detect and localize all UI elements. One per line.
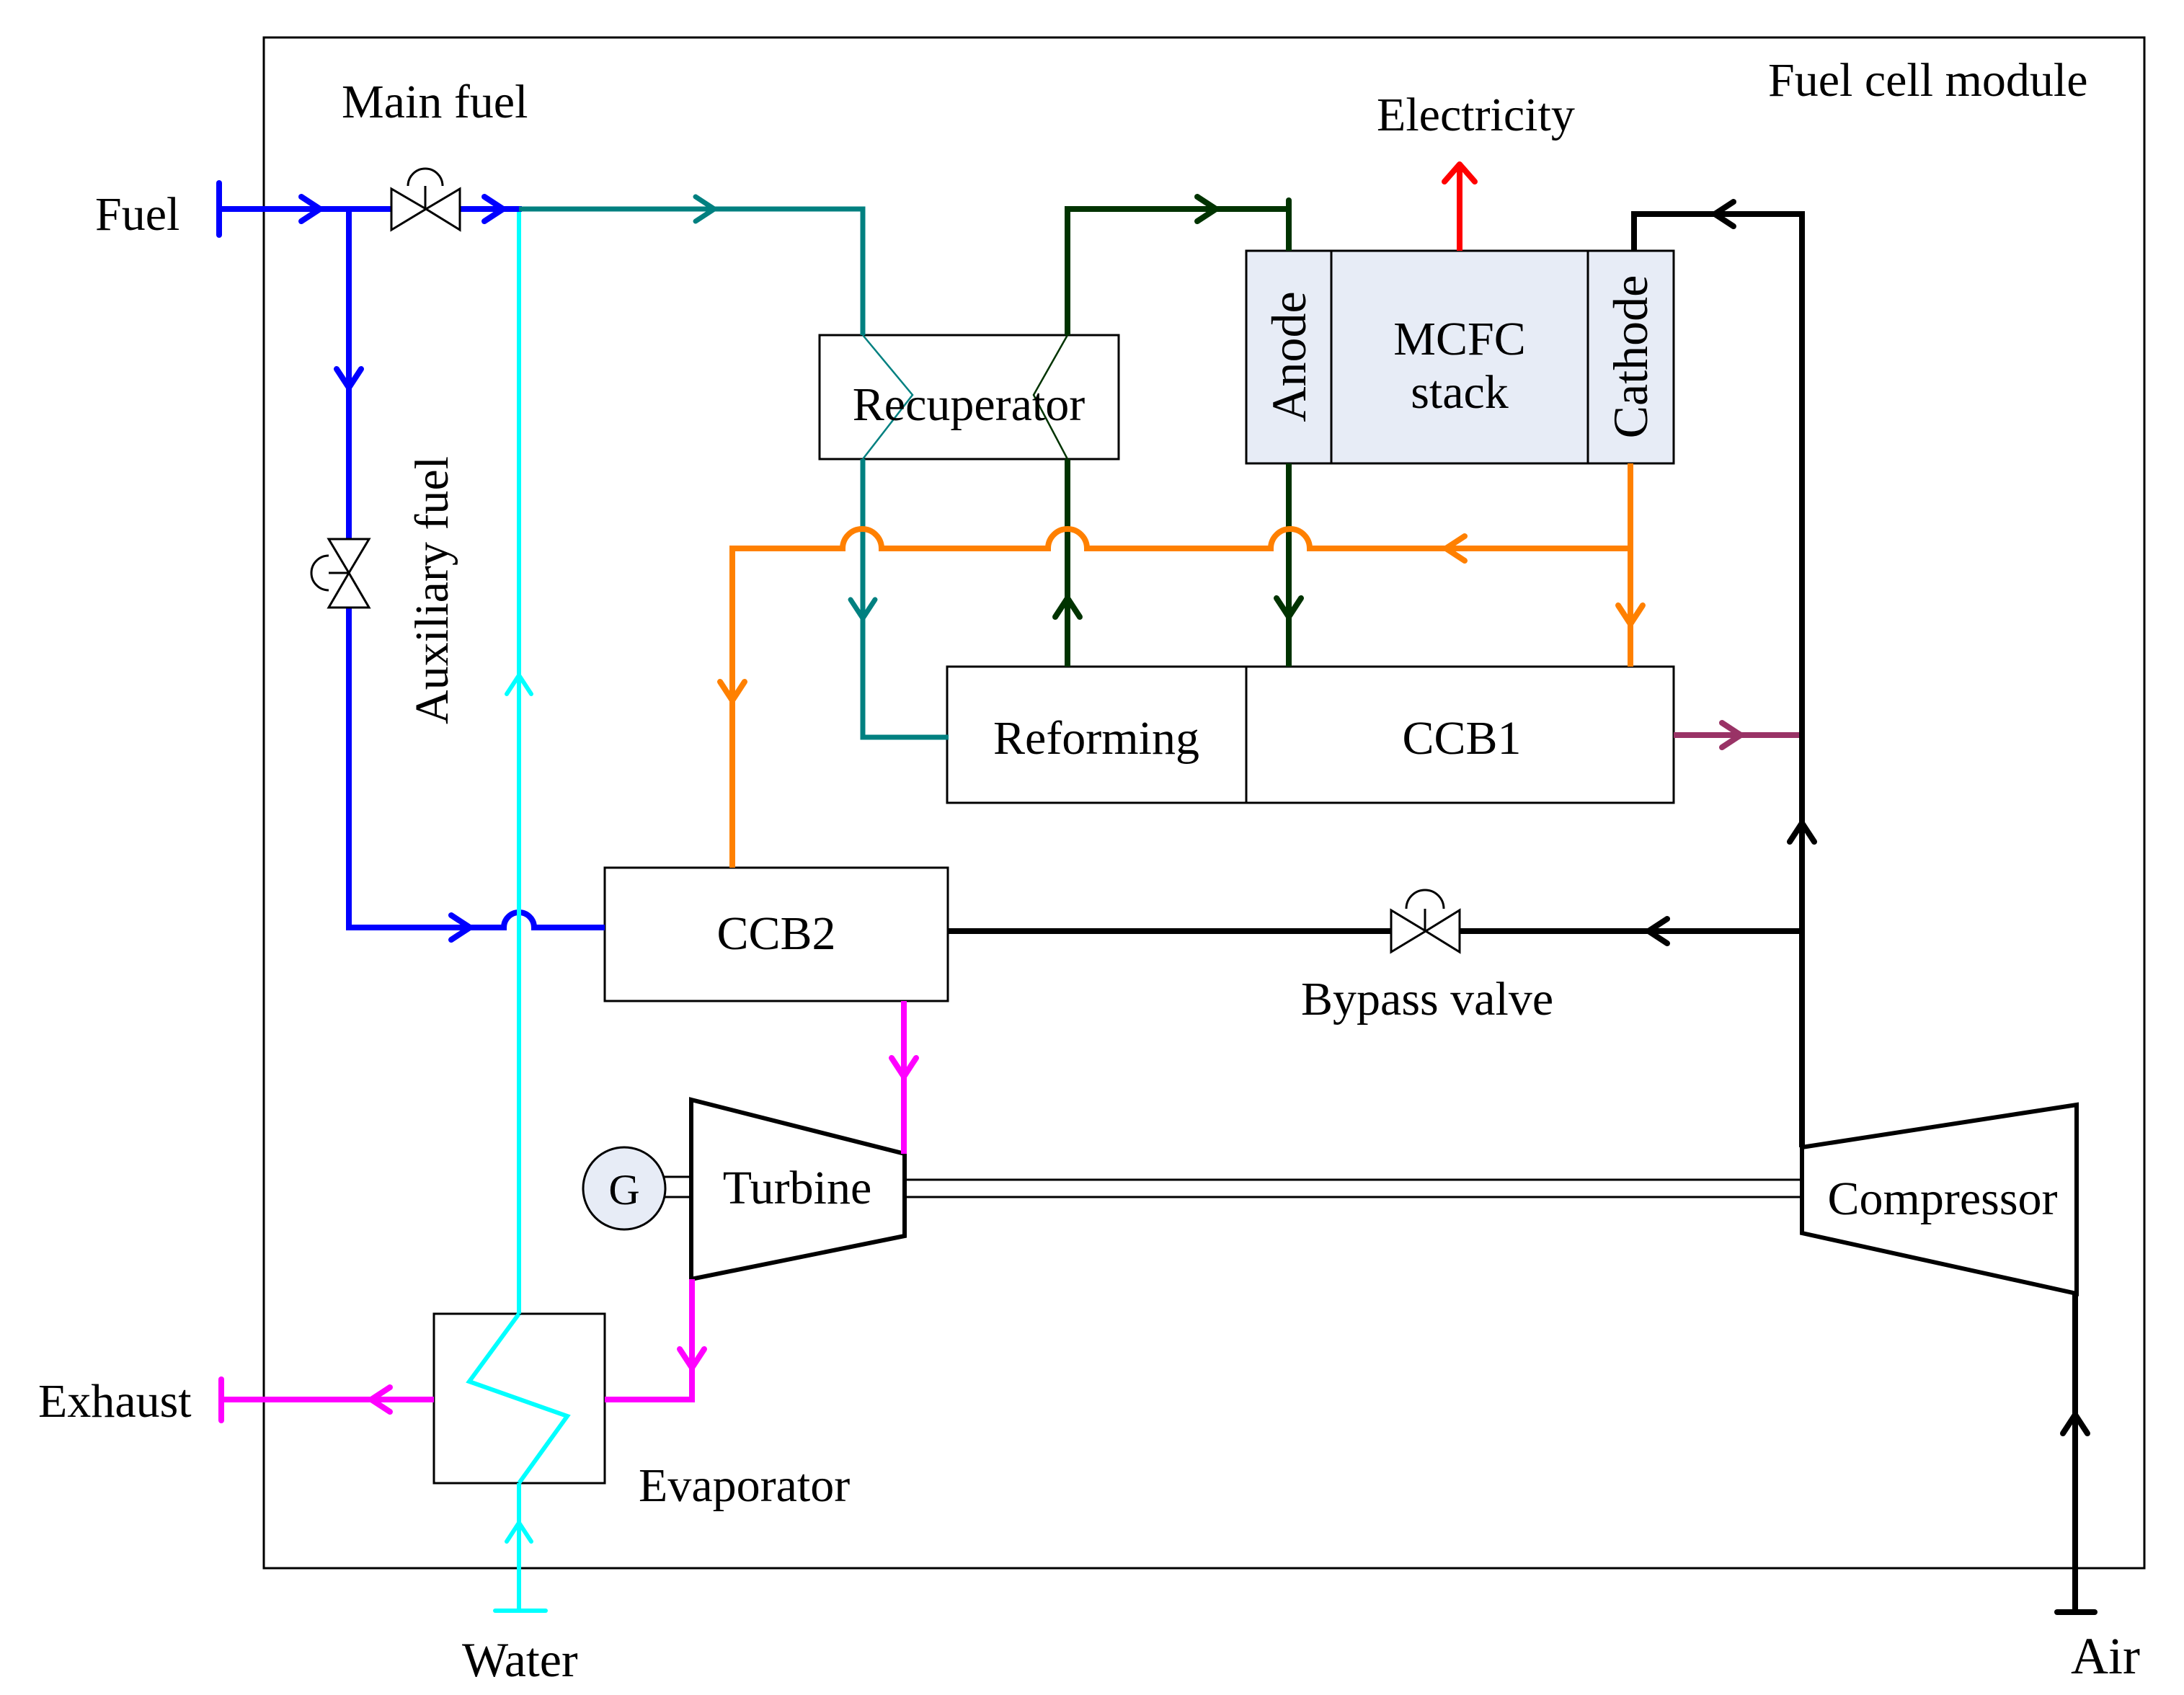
wire: turbine outlet to evaporator: [605, 1279, 692, 1400]
wire: cathode down: [1628, 463, 1633, 667]
wire: auxiliary to CCB2 with hump over water line: [349, 912, 605, 927]
arrow left to cathode: [1715, 202, 1734, 226]
wire: shaft G to turbine: [663, 1177, 693, 1197]
wire: recuperator to anode: [1067, 209, 1289, 335]
svg-text:G: G: [608, 1166, 639, 1214]
svg-text:Air: Air: [2071, 1627, 2140, 1685]
arrow after valve: [484, 197, 503, 221]
MCFC stack box: [1246, 251, 1674, 463]
arrow down to CCB1: [1277, 598, 1301, 617]
wire: water inlet below evaporator: [517, 1483, 521, 1611]
generator G: [583, 1147, 665, 1229]
svg-text:Fuel cell module: Fuel cell module: [1768, 54, 2088, 107]
main fuel valve: [391, 169, 460, 230]
arrow left to exhaust: [371, 1387, 390, 1412]
wire: bypass line CCB2 to riser: [948, 928, 1391, 934]
arrow up electricity: [1444, 164, 1475, 182]
arrow down from turbine: [680, 1349, 704, 1368]
CCB2 box: [605, 868, 948, 1001]
svg-text:Electricity: Electricity: [1377, 89, 1575, 141]
arrow toward recuperator: [696, 197, 714, 221]
wire: CCB1 to air line: [1674, 732, 1802, 738]
auxiliary fuel valve: [311, 539, 369, 608]
wire: compressor riser to cathode: [1634, 214, 1802, 1147]
svg-text:Reforming: Reforming: [993, 712, 1199, 765]
svg-text:Auxiliary fuel: Auxiliary fuel: [406, 456, 458, 724]
svg-text:CCB2: CCB2: [716, 907, 835, 960]
bypass valve: [1391, 890, 1460, 952]
svg-text:Water: Water: [462, 1632, 578, 1687]
wire: auxiliary branch down: [346, 209, 352, 539]
arrow up on riser: [1790, 823, 1814, 842]
arrow down to reforming: [851, 600, 875, 618]
wire: fuel junction to recuperator: [519, 209, 863, 335]
arrow toward anode: [1197, 197, 1216, 221]
svg-text:Evaporator: Evaporator: [639, 1459, 850, 1512]
wire: CCB2 to turbine: [901, 1001, 907, 1154]
svg-text:Fuel: Fuel: [95, 188, 179, 241]
arrow on auxiliary branch: [337, 369, 361, 388]
arrow left on header: [1446, 536, 1465, 561]
compressor: [1802, 1105, 2077, 1294]
evaporator box: [434, 1314, 605, 1483]
recuperator teal vee: [863, 335, 913, 459]
evaporator zigzag: [469, 1314, 567, 1483]
wire: orange header with humps: [732, 529, 1630, 868]
wire: air inlet: [2072, 1294, 2078, 1612]
recuperator green vee: [1034, 335, 1067, 459]
svg-text:Anode: Anode: [1261, 291, 1316, 422]
svg-text:MCFC: MCFC: [1393, 313, 1525, 365]
arrow on fuel inlet: [301, 197, 320, 221]
turbine: [691, 1100, 905, 1279]
arrow down to CCB1 right: [1618, 605, 1643, 624]
arrow down to CCB2: [720, 682, 745, 700]
cathode divider: [1587, 251, 1589, 463]
arrow down to turbine: [892, 1058, 916, 1077]
water terminal tick: [495, 1609, 546, 1613]
wire: anode to CCB1: [1286, 463, 1292, 667]
fuel inlet tick: [216, 183, 222, 235]
wire: electricity from MCFC: [1457, 166, 1462, 251]
wire: recuperator to reforming: [863, 459, 949, 737]
stub at anode corner: [1286, 200, 1292, 210]
arrow up on air inlet: [2063, 1415, 2087, 1433]
svg-text:Exhaust: Exhaust: [38, 1375, 192, 1428]
wire: reforming up to recuperator: [1065, 459, 1070, 667]
arrow to CCB2: [451, 915, 470, 940]
svg-text:Cathode: Cathode: [1603, 275, 1658, 439]
wire: fuel inlet to main valve: [219, 206, 391, 212]
reforming/CCB1 divider: [1246, 667, 1248, 803]
svg-text:Recuperator: Recuperator: [853, 378, 1086, 431]
reforming / CCB1 box: [947, 667, 1674, 803]
wire: valve to junction: [460, 206, 522, 212]
wire: water riser to fuel line: [517, 212, 521, 1314]
air terminal tick: [2057, 1609, 2095, 1615]
arrow right: [1722, 723, 1741, 747]
svg-text:CCB1: CCB1: [1402, 712, 1521, 765]
wire: shaft turbine to compressor: [905, 1180, 1802, 1197]
svg-text:Turbine: Turbine: [723, 1162, 872, 1214]
outer border: Fuel cell module boundary: [264, 37, 2144, 1568]
wire: auxiliary branch below valve: [346, 608, 352, 930]
arrow left on bypass: [1648, 919, 1667, 943]
svg-text:stack: stack: [1411, 366, 1509, 419]
anode divider: [1331, 251, 1333, 463]
svg-text:Main fuel: Main fuel: [342, 76, 528, 128]
arrow up from reforming: [1055, 598, 1080, 617]
wire: evaporator to exhaust: [221, 1397, 434, 1402]
arrow on water riser: [507, 675, 531, 694]
arrow on water inlet: [507, 1523, 531, 1541]
recuperator box: [820, 335, 1119, 459]
exhaust terminal tick: [218, 1379, 224, 1420]
svg-text:Compressor: Compressor: [1828, 1173, 2058, 1225]
svg-text:Bypass valve: Bypass valve: [1301, 973, 1553, 1026]
